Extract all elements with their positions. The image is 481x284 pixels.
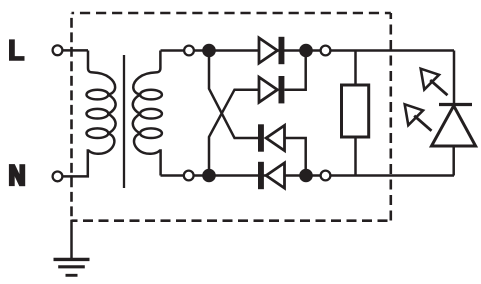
transformer core — [123, 55, 125, 188]
junction bottom-right node — [299, 169, 313, 183]
connector bottom-left — [184, 171, 194, 181]
connector top-right — [321, 46, 331, 56]
dashed enclosure (isolation boundary) — [72, 13, 391, 221]
wire bridge cross: top node to D3 cathode — [209, 51, 258, 139]
terminal N — [53, 172, 63, 182]
label L — [9, 39, 25, 60]
label N — [9, 164, 25, 186]
diode D1 (top, anode left) — [259, 37, 284, 64]
wire bottom rail — [161, 174, 455, 177]
wire D3 anode to bottom-right node — [285, 138, 306, 176]
transformer primary winding — [63, 51, 115, 177]
resistor R1 — [342, 51, 369, 176]
transformer secondary winding — [133, 51, 162, 176]
LED — [432, 51, 476, 176]
wire D2 cathode to top-right node — [285, 51, 306, 90]
junction bottom-left node — [202, 169, 216, 183]
wire L terminal to primary winding — [63, 49, 89, 52]
wire bridge cross: bottom node to D2 anode — [209, 90, 260, 176]
wire top rail (secondary to LED) — [161, 49, 455, 52]
light emission arrow 1 — [421, 69, 448, 96]
connector top-left — [184, 46, 194, 56]
diode D2 (anode left) — [259, 76, 284, 103]
light emission arrow 2 — [405, 104, 432, 131]
junction top-right node — [299, 44, 313, 58]
diode D3 (cathode left) — [258, 124, 285, 151]
diode D4 (bottom, cathode left) — [258, 162, 285, 189]
ground (protective earth) — [54, 220, 90, 276]
connector bottom-right — [321, 171, 331, 181]
junction top-left node — [202, 44, 216, 58]
terminal L — [53, 45, 63, 55]
